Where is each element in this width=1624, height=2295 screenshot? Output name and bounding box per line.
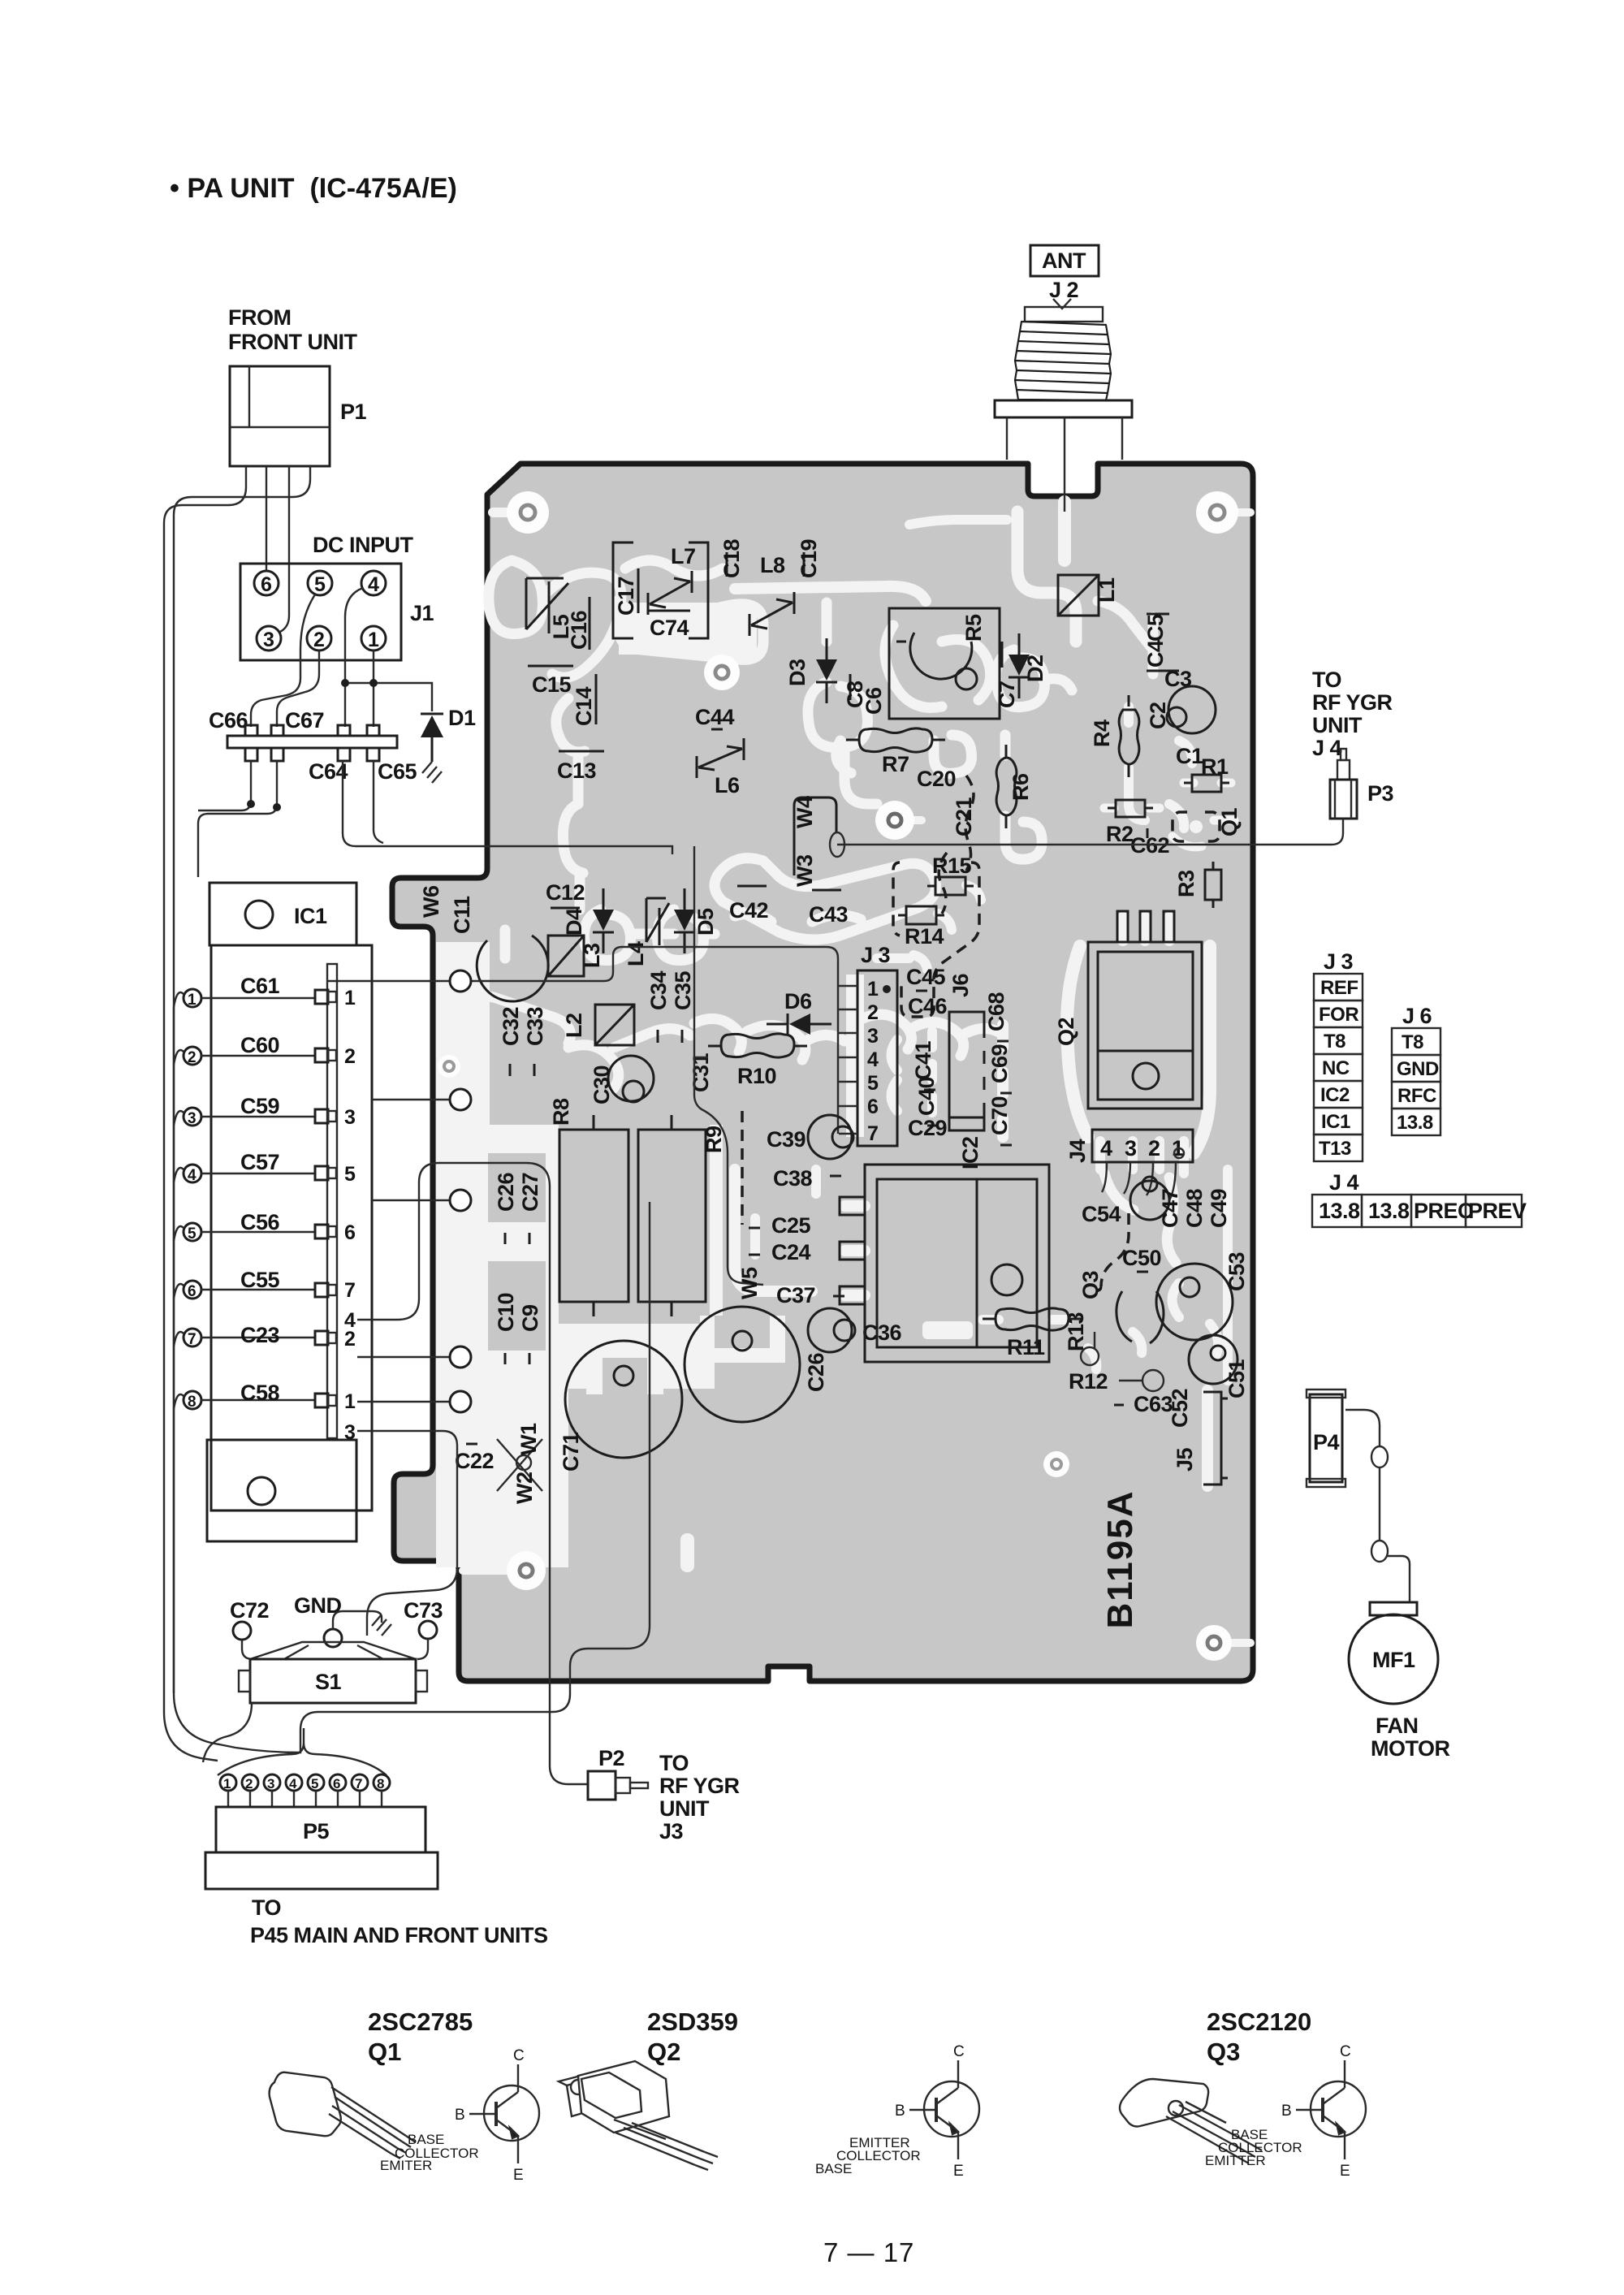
trace loop L5 C15 xyxy=(489,560,543,634)
svg-text:C22: C22 xyxy=(455,1449,494,1473)
svg-text:2: 2 xyxy=(245,1776,253,1791)
transistor figures xyxy=(270,2008,1366,2184)
svg-text:D2: D2 xyxy=(1023,655,1047,682)
svg-text:4: 4 xyxy=(289,1776,297,1791)
capacitor C39 xyxy=(767,1115,853,1159)
left pin bus vertical xyxy=(173,1007,175,1693)
svg-text:C74: C74 xyxy=(650,616,689,640)
diode D6 xyxy=(767,989,831,1035)
svg-text:C72: C72 xyxy=(230,1598,269,1623)
svg-text:P1: P1 xyxy=(340,400,367,424)
connector J4 xyxy=(1065,1130,1193,1200)
resistor R4 xyxy=(1090,695,1139,777)
svg-text:PREC: PREC xyxy=(1414,1199,1473,1223)
wire node junction to D1 xyxy=(345,683,432,711)
bottom mount block xyxy=(207,1440,356,1541)
svg-text:3: 3 xyxy=(267,1776,274,1791)
resistor R10 xyxy=(708,1034,807,1088)
svg-text:C52: C52 xyxy=(1168,1389,1192,1428)
trace J5 column xyxy=(1202,1390,1213,1486)
svg-text:B: B xyxy=(895,2103,905,2120)
svg-text:J 3: J 3 xyxy=(1324,949,1354,974)
capacitor C22 xyxy=(455,1444,494,1473)
svg-text:C: C xyxy=(1340,2043,1351,2060)
trace C42 C43 band xyxy=(735,914,861,922)
svg-text:P2: P2 xyxy=(598,1746,624,1770)
svg-text:C57: C57 xyxy=(240,1150,279,1174)
board edge pads xyxy=(450,970,471,992)
svg-text:ANT: ANT xyxy=(1042,249,1086,273)
connector P1 xyxy=(230,366,367,466)
svg-text:P3: P3 xyxy=(1367,781,1394,806)
capacitor C12 xyxy=(546,880,585,908)
J1 pin 1 xyxy=(361,626,386,650)
svg-text:Q1: Q1 xyxy=(1217,807,1242,836)
svg-text:1: 1 xyxy=(344,1390,356,1413)
capacitor C74 xyxy=(648,611,690,640)
diode D5 xyxy=(674,888,718,953)
svg-text:5: 5 xyxy=(311,1776,318,1791)
svg-text:C21: C21 xyxy=(952,797,976,836)
svg-text:UNIT: UNIT xyxy=(659,1796,710,1821)
trace bottom pad feed xyxy=(463,1567,524,1575)
capacitor C1 xyxy=(1176,744,1203,768)
svg-text:IC1: IC1 xyxy=(1321,1111,1350,1133)
PCB board body xyxy=(392,464,1253,1681)
via small left xyxy=(438,1055,460,1078)
capacitor C54 dashed xyxy=(1082,1202,1129,1286)
svg-text:C11: C11 xyxy=(450,896,474,934)
svg-text:6: 6 xyxy=(261,573,272,596)
capacitor C36 xyxy=(808,1308,902,1352)
svg-text:C42: C42 xyxy=(729,898,768,923)
svg-text:1: 1 xyxy=(188,992,197,1009)
pin 8 xyxy=(184,1391,201,1409)
box around C17 L7 C74 xyxy=(613,542,708,638)
trace D4 L4 D5 row xyxy=(584,910,715,961)
svg-text:C14: C14 xyxy=(572,686,596,726)
dashed outline R14 R15 C45 C46 xyxy=(893,862,979,1017)
svg-text:P5: P5 xyxy=(303,1819,330,1843)
trace C34 C35 chain to J3 xyxy=(694,1018,844,1060)
svg-text:C46: C46 xyxy=(908,994,948,1018)
svg-text:7: 7 xyxy=(355,1776,362,1791)
svg-text:E: E xyxy=(513,2167,524,2184)
connector J1 xyxy=(240,564,434,660)
svg-text:C: C xyxy=(513,2047,525,2064)
J1 pin 4 xyxy=(361,571,386,595)
svg-text:Q3: Q3 xyxy=(1078,1270,1103,1299)
wire P1 lead 4 long run xyxy=(174,466,310,1748)
trace C5 C4 to Q2 top xyxy=(1098,601,1153,674)
svg-text:Q2: Q2 xyxy=(647,2038,680,2066)
wire dashed C31 xyxy=(741,1111,744,1225)
trace under L7 C74 box xyxy=(617,560,763,659)
svg-text:C4: C4 xyxy=(1143,640,1168,668)
trace small bar right of C26 xyxy=(922,1321,973,1339)
trace C7 loop xyxy=(996,650,1072,707)
svg-text:C18: C18 xyxy=(719,538,744,578)
svg-text:C70: C70 xyxy=(987,1096,1012,1135)
svg-text:D6: D6 xyxy=(784,989,812,1014)
trace L2 C30 region xyxy=(568,1029,690,1088)
capacitor C21 dashed xyxy=(939,797,976,914)
svg-text:C9: C9 xyxy=(518,1304,542,1332)
capacitor C16 xyxy=(567,597,591,650)
svg-text:C36: C36 xyxy=(862,1320,902,1345)
svg-text:C66: C66 xyxy=(209,708,248,733)
trace R4 C2 C1 region xyxy=(1129,707,1192,828)
svg-text:B: B xyxy=(1281,2103,1292,2120)
Q1 package TO-92 xyxy=(270,2072,416,2159)
fan motor MF1 xyxy=(1349,1602,1438,1704)
svg-text:C44: C44 xyxy=(695,705,735,729)
resistor R9 xyxy=(638,1115,726,1316)
connector J3 xyxy=(839,943,897,1146)
capacitor C25 xyxy=(749,1213,811,1238)
svg-text:RF YGR: RF YGR xyxy=(659,1774,740,1798)
svg-text:P4: P4 xyxy=(1313,1430,1340,1454)
svg-text:C33: C33 xyxy=(523,1006,547,1046)
bracket W4 W3 xyxy=(793,796,844,887)
capacitor C4 xyxy=(1143,640,1179,671)
capacitor C19 xyxy=(797,538,821,578)
svg-text:5: 5 xyxy=(314,573,326,596)
pin 4 xyxy=(184,1165,201,1182)
wire loop to J3 xyxy=(471,947,838,1134)
wire J1 pin2 to C67 xyxy=(277,650,319,727)
svg-text:C53: C53 xyxy=(1224,1251,1249,1291)
resistor R6 xyxy=(996,745,1033,828)
svg-text:C45: C45 xyxy=(906,965,946,989)
wire W5 xyxy=(737,1267,762,1299)
plug P3 xyxy=(1330,749,1394,819)
capacitor C53 xyxy=(1156,1251,1249,1340)
svg-text:C60: C60 xyxy=(240,1033,279,1057)
pin 1 xyxy=(184,989,201,1007)
svg-text:2: 2 xyxy=(188,1049,197,1066)
svg-text:W1: W1 xyxy=(516,1423,541,1455)
svg-text:J 2: J 2 xyxy=(1049,278,1078,302)
svg-text:C31: C31 xyxy=(689,1052,713,1092)
wire P1 lead far-left long run xyxy=(164,466,246,1761)
wire C66 pin down to left bus xyxy=(198,761,251,810)
capacitor C41 xyxy=(911,1040,935,1090)
trace right of J3 to D6 xyxy=(861,1014,1003,1056)
svg-text:R8: R8 xyxy=(549,1098,573,1126)
trace C53 C51 loops xyxy=(1173,1283,1219,1355)
svg-text:4: 4 xyxy=(368,573,379,596)
svg-text:C55: C55 xyxy=(240,1268,280,1292)
capacitor C70 xyxy=(987,1096,1012,1145)
svg-text:R6: R6 xyxy=(1009,773,1033,801)
capacitor C31 xyxy=(689,1052,713,1092)
plug P4 xyxy=(1307,1390,1345,1487)
resistor R3 xyxy=(1174,862,1221,908)
wire C65 pin join xyxy=(374,761,383,843)
trace C71 pad structure xyxy=(586,1344,663,1394)
svg-text:R12: R12 xyxy=(1069,1369,1108,1394)
svg-text:2: 2 xyxy=(344,1328,356,1351)
svg-text:C7: C7 xyxy=(995,681,1019,708)
svg-text:7: 7 xyxy=(867,1122,879,1145)
trace left of module column xyxy=(735,1169,812,1291)
trace top bus from notch to left xyxy=(909,520,1007,525)
capacitor C52 xyxy=(1168,1389,1192,1428)
svg-text:J6: J6 xyxy=(948,973,973,997)
inductor L6 xyxy=(697,738,744,797)
capacitor C63 xyxy=(1114,1392,1173,1416)
capacitor C17 xyxy=(614,568,638,616)
svg-text:W2: W2 xyxy=(512,1472,537,1505)
pin 2 xyxy=(184,1047,201,1065)
mount pad bottom-right xyxy=(1196,1625,1232,1661)
svg-text:TO: TO xyxy=(252,1895,281,1920)
svg-text:C35: C35 xyxy=(671,970,695,1010)
trace R11 R12 R13 region xyxy=(983,1320,1142,1369)
capacitor C24 xyxy=(749,1240,811,1264)
trace R14 R15 pads xyxy=(914,885,981,970)
svg-text:R2: R2 xyxy=(1106,822,1134,846)
Q3 symbol xyxy=(1296,2060,1366,2159)
svg-text:D5: D5 xyxy=(693,908,718,936)
trace C29 C40 C41 left of IC2 xyxy=(892,1031,933,1113)
svg-text:3: 3 xyxy=(867,1025,879,1048)
svg-text:W5: W5 xyxy=(737,1267,762,1299)
svg-text:5: 5 xyxy=(188,1225,197,1243)
svg-text:Q1: Q1 xyxy=(368,2038,401,2066)
svg-text:5: 5 xyxy=(344,1163,356,1186)
svg-text:3: 3 xyxy=(344,1421,356,1444)
svg-text:C32: C32 xyxy=(499,1007,523,1046)
svg-text:C56: C56 xyxy=(240,1210,280,1234)
svg-text:13.8: 13.8 xyxy=(1368,1199,1410,1223)
svg-text:L7: L7 xyxy=(671,544,696,568)
svg-text:FRONT UNIT: FRONT UNIT xyxy=(228,330,357,354)
mount pad mid xyxy=(875,801,914,840)
Q2 package TO-220 xyxy=(559,2061,718,2170)
svg-text:R4: R4 xyxy=(1090,720,1114,747)
svg-text:C49: C49 xyxy=(1207,1188,1231,1228)
svg-text:T8: T8 xyxy=(1324,1031,1345,1052)
svg-text:C23: C23 xyxy=(240,1323,280,1347)
inductor L3 xyxy=(548,936,604,976)
capacitor C44 xyxy=(695,705,735,729)
pin 7 xyxy=(184,1329,201,1346)
capacitor C5 xyxy=(1143,614,1169,642)
svg-text:C43: C43 xyxy=(809,902,849,927)
wire W1 W2 cross xyxy=(497,1423,542,1504)
svg-text:J1: J1 xyxy=(410,601,434,625)
svg-text:C59: C59 xyxy=(240,1094,280,1118)
svg-text:C1: C1 xyxy=(1176,744,1203,768)
svg-text:S1: S1 xyxy=(315,1670,342,1694)
svg-text:5: 5 xyxy=(867,1072,879,1095)
connector J5 xyxy=(1173,1392,1228,1485)
svg-text:C12: C12 xyxy=(546,880,585,905)
ANT box xyxy=(1030,245,1099,302)
svg-text:C40: C40 xyxy=(914,1077,939,1116)
wire pin3 row down to S1 xyxy=(357,1431,457,1636)
svg-text:C24: C24 xyxy=(771,1240,811,1264)
svg-text:J5: J5 xyxy=(1173,1447,1197,1472)
svg-text:J 3: J 3 xyxy=(861,943,891,967)
trace from Q2 legs down xyxy=(1123,918,1169,940)
capacitor C13 xyxy=(557,751,604,783)
svg-text:EMITER: EMITER xyxy=(380,2158,432,2173)
svg-text:B: B xyxy=(455,2107,465,2124)
trace right mid column down xyxy=(1223,1169,1233,1381)
svg-text:C6: C6 xyxy=(862,687,886,715)
svg-text:J3: J3 xyxy=(659,1819,684,1843)
svg-text:GND: GND xyxy=(1397,1058,1439,1080)
svg-text:6: 6 xyxy=(344,1221,356,1244)
svg-text:NC: NC xyxy=(1322,1057,1350,1079)
svg-text:B1195A: B1195A xyxy=(1100,1489,1140,1628)
svg-text:C65: C65 xyxy=(378,759,417,784)
capacitor C26 C27 labels xyxy=(494,1172,542,1244)
svg-text:L6: L6 xyxy=(715,773,740,797)
inductor L4 xyxy=(624,898,669,966)
svg-text:C27: C27 xyxy=(518,1173,542,1212)
wire long horizontal to board W6 xyxy=(370,846,672,854)
svg-text:2SC2785: 2SC2785 xyxy=(368,2008,473,2036)
svg-text:C26: C26 xyxy=(804,1352,828,1392)
svg-text:C37: C37 xyxy=(776,1283,815,1307)
wire C64 pin to long horizontal xyxy=(343,761,370,846)
trace C26 inner pad xyxy=(700,1316,785,1363)
pin 3 xyxy=(184,1108,201,1126)
svg-text:MOTOR: MOTOR xyxy=(1371,1736,1450,1761)
resistor R2 xyxy=(1106,800,1153,846)
inductor L1 xyxy=(1058,575,1119,616)
switch S1 trapezoid xyxy=(250,1642,416,1659)
wire J1 pin5 to C66 xyxy=(251,594,315,727)
capacitor C43 xyxy=(809,890,849,927)
wires from pins to board pads xyxy=(328,980,449,982)
wire trace around R8 R9 xyxy=(455,1125,723,1324)
resistor R11 xyxy=(983,1308,1082,1359)
board components xyxy=(419,538,1249,1504)
svg-text:PREV: PREV xyxy=(1468,1199,1527,1223)
svg-text:R3: R3 xyxy=(1174,870,1199,897)
svg-text:W4: W4 xyxy=(793,796,817,828)
svg-text:4: 4 xyxy=(867,1048,879,1071)
IC1 xyxy=(209,883,356,945)
capacitor C69 xyxy=(987,1044,1012,1093)
IC1 connector body xyxy=(211,945,372,1511)
trace L3 C11 region xyxy=(455,930,571,1044)
pin 6 xyxy=(184,1281,201,1299)
svg-text:C73: C73 xyxy=(404,1598,443,1623)
svg-text:TO: TO xyxy=(1312,668,1341,692)
svg-text:R9: R9 xyxy=(702,1126,726,1153)
capacitor C3 xyxy=(1164,667,1216,733)
resistor R7 xyxy=(846,728,945,776)
trace power module legs xyxy=(844,1206,865,1295)
capacitor C51 xyxy=(1189,1335,1249,1398)
capacitor C62 xyxy=(1130,828,1169,858)
wire S1 bottom to P5 area xyxy=(203,1703,252,1762)
svg-text:P45 MAIN AND FRONT UNITS: P45 MAIN AND FRONT UNITS xyxy=(250,1923,548,1947)
svg-text:R15: R15 xyxy=(932,854,972,878)
svg-text:C51: C51 xyxy=(1224,1359,1249,1398)
svg-text:C30: C30 xyxy=(590,1065,614,1104)
svg-text:Q3: Q3 xyxy=(1207,2038,1240,2066)
svg-text:2: 2 xyxy=(344,1045,356,1068)
J1 pin 5 xyxy=(308,571,332,595)
inductor L7 xyxy=(648,544,696,615)
svg-text:L3: L3 xyxy=(580,943,604,968)
capacitor C15 xyxy=(528,666,573,697)
svg-text:L4: L4 xyxy=(624,941,648,966)
svg-text:J 6: J 6 xyxy=(1402,1004,1432,1028)
svg-text:C26: C26 xyxy=(494,1172,518,1212)
mount pad bottom-left xyxy=(507,1551,546,1590)
svg-text:3: 3 xyxy=(263,629,274,651)
svg-text:C: C xyxy=(953,2043,965,2060)
capacitor C30 xyxy=(590,1056,654,1104)
trace R1 R2 pads xyxy=(1104,783,1231,808)
svg-text:3: 3 xyxy=(188,1110,197,1127)
svg-text:C38: C38 xyxy=(773,1166,813,1191)
svg-text:C19: C19 xyxy=(797,538,821,578)
mount pad center xyxy=(704,655,740,690)
capacitor C46 xyxy=(908,994,948,1018)
svg-text:C67: C67 xyxy=(285,708,324,733)
connector P5 xyxy=(216,1807,425,1852)
svg-text:Q2: Q2 xyxy=(1054,1018,1078,1046)
trace Q1 area xyxy=(1173,820,1234,847)
capacitor C40 xyxy=(914,1077,939,1126)
svg-text:FOR: FOR xyxy=(1319,1004,1358,1026)
trace pad top-right feed xyxy=(1217,508,1250,516)
trace L1 column down xyxy=(1017,512,1076,642)
svg-text:C17: C17 xyxy=(614,577,638,616)
svg-text:E: E xyxy=(953,2163,964,2180)
resistor R1 xyxy=(1184,754,1229,792)
svg-text:W3: W3 xyxy=(793,854,817,887)
capacitor C32 C33 xyxy=(499,1006,547,1076)
svg-text:J4: J4 xyxy=(1065,1139,1090,1163)
svg-text:D3: D3 xyxy=(785,659,810,686)
svg-text:R7: R7 xyxy=(882,752,909,776)
Q3 package TO-92 xyxy=(1120,2079,1262,2163)
trace under J4 to C47 C53 xyxy=(1104,1173,1176,1263)
resistor R12 xyxy=(1069,1369,1164,1394)
svg-text:1: 1 xyxy=(344,987,356,1009)
svg-text:4: 4 xyxy=(1100,1136,1112,1160)
svg-text:EMITTER: EMITTER xyxy=(1205,2153,1266,2168)
Q2 symbol xyxy=(909,2060,979,2159)
J1 pin 6 xyxy=(254,571,279,595)
J1 pin 2 xyxy=(307,626,331,650)
trace Q2 to J4 white band xyxy=(1067,946,1210,1153)
trace antenna pin xyxy=(1058,502,1071,560)
svg-text:6: 6 xyxy=(188,1283,197,1300)
resistor R14 xyxy=(898,906,944,949)
diode D3 xyxy=(785,638,837,703)
svg-text:C54: C54 xyxy=(1082,1202,1121,1226)
svg-text:BASE: BASE xyxy=(815,2161,852,2176)
wire pin4 row to P2 line xyxy=(357,1163,588,1784)
svg-text:2SC2120: 2SC2120 xyxy=(1207,2008,1311,2036)
capacitor C50 xyxy=(1122,1246,1161,1272)
capacitor C37 xyxy=(776,1283,844,1307)
svg-text:C5: C5 xyxy=(1143,614,1168,642)
trace pad near C20 feed xyxy=(895,816,922,824)
svg-text:C71: C71 xyxy=(559,1432,583,1472)
